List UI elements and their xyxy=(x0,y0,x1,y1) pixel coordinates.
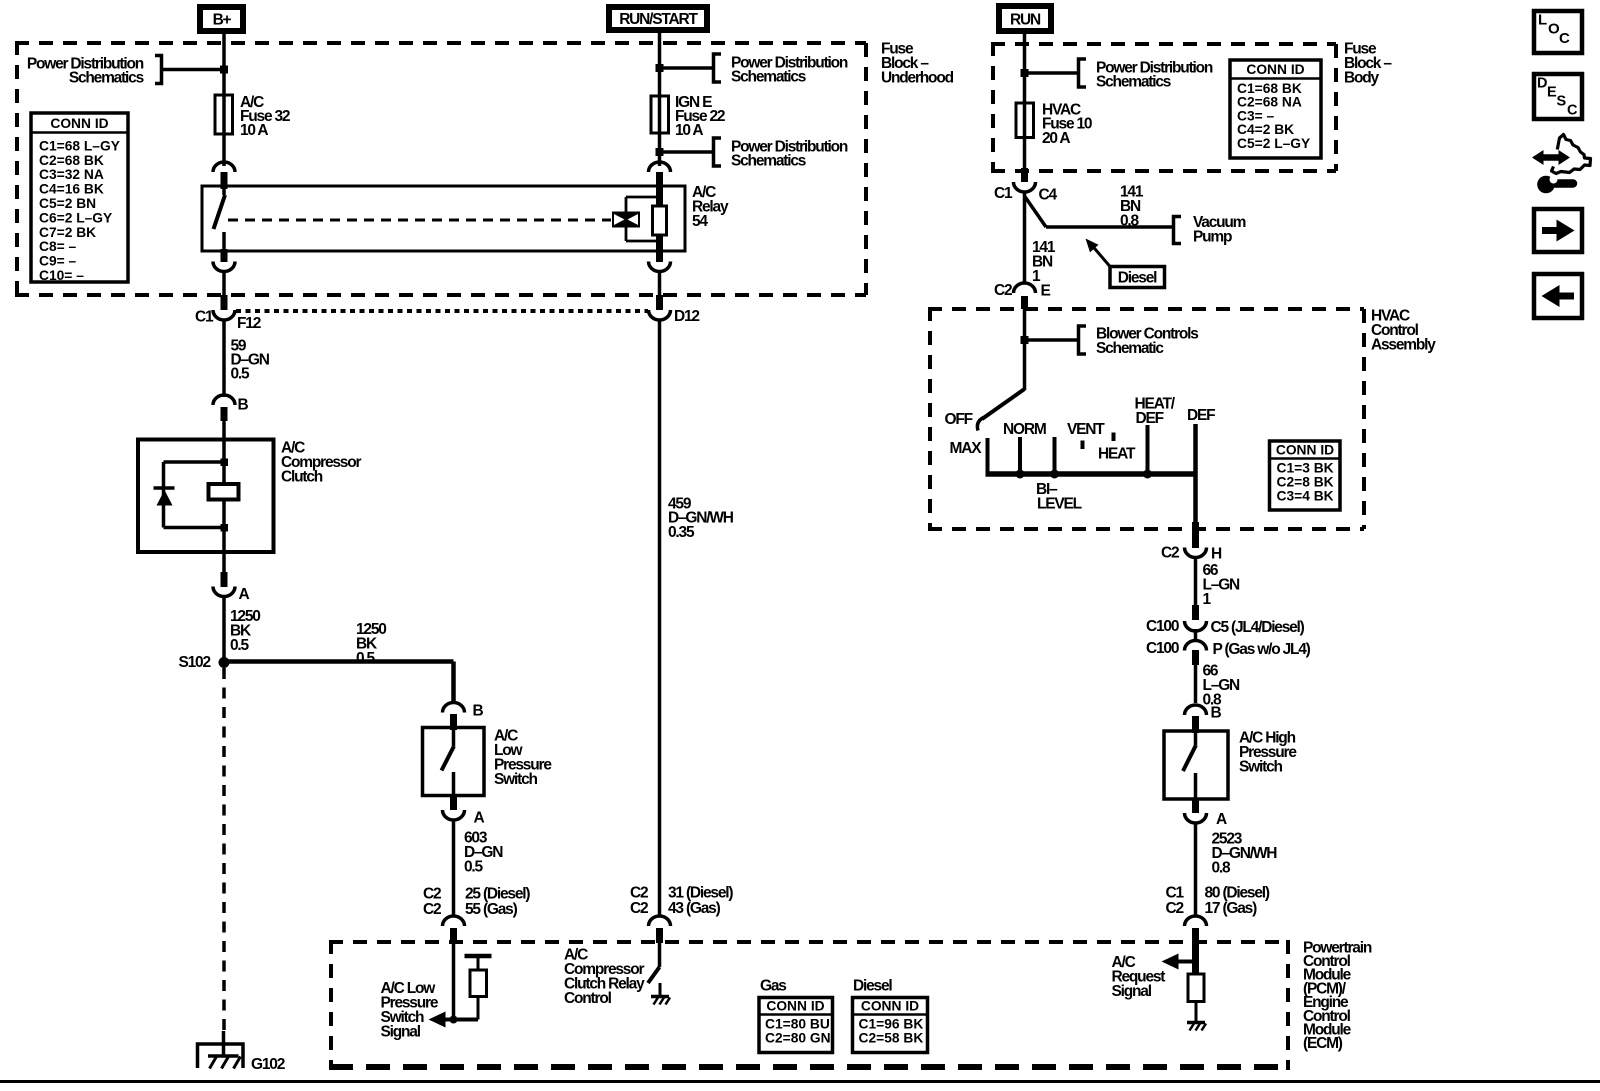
clutch coil xyxy=(209,484,239,500)
svg-text:MAX: MAX xyxy=(950,440,983,457)
wire high pressure switch to PCM xyxy=(1194,823,1198,917)
svg-text:C1: C1 xyxy=(994,185,1013,202)
svg-text:CONN ID: CONN ID xyxy=(861,999,919,1014)
node bus junctions xyxy=(1016,470,1153,479)
svg-text:LEVEL: LEVEL xyxy=(1037,495,1082,512)
svg-text:DEF: DEF xyxy=(1136,410,1164,427)
label A/C High Pressure Switch xyxy=(1239,730,1297,776)
connector A (high pressure switch pin A) xyxy=(1192,799,1199,813)
svg-text:C2=8 BK: C2=8 BK xyxy=(1277,475,1334,490)
A/C high pressure switch box xyxy=(1164,731,1228,799)
icon next arrow button xyxy=(1534,209,1582,252)
node junction mid power distribution 2 xyxy=(656,148,664,156)
svg-text:DEF: DEF xyxy=(1187,407,1215,424)
connector C1 C4 xyxy=(994,182,1057,203)
A/C compressor clutch box xyxy=(138,440,274,553)
wire RUN to HVAC fuse xyxy=(1023,34,1027,103)
svg-text:54: 54 xyxy=(692,213,708,230)
svg-text:L: L xyxy=(1538,12,1547,29)
pulldown resistor (A/C request) xyxy=(1188,962,1204,1023)
relay coil xyxy=(656,186,663,251)
svg-text:C100: C100 xyxy=(1146,640,1179,657)
svg-text:C5 (JL4/Diesel): C5 (JL4/Diesel) xyxy=(1211,619,1305,636)
svg-text:C5=2 L–GY: C5=2 L–GY xyxy=(1237,136,1310,151)
relay suppressor element xyxy=(612,212,640,228)
value label A/C Fuse 32 10 A xyxy=(240,94,290,139)
svg-text:F12: F12 xyxy=(237,315,261,332)
clutch coil wire xyxy=(222,462,226,528)
reference Power Distribution Schematics (left) xyxy=(27,55,224,86)
wire DEF contact to C2 H xyxy=(1193,424,1198,529)
svg-text:0.35: 0.35 xyxy=(668,524,695,541)
svg-text:S: S xyxy=(1557,94,1567,110)
svg-text:Body: Body xyxy=(1344,69,1380,86)
reference Power Distribution Schematics (mid upper) xyxy=(660,54,848,85)
icon wrench/arrows xyxy=(1532,135,1591,194)
svg-text:CONN ID: CONN ID xyxy=(50,116,108,131)
page bottom border xyxy=(0,1080,1600,1083)
svg-text:Schematics: Schematics xyxy=(731,152,806,169)
A/C compressor clutch relay control driver switch xyxy=(648,941,660,983)
wire label 2523 D-GN/WH 0.8 xyxy=(1212,830,1278,876)
svg-text:C3=32 NA: C3=32 NA xyxy=(39,167,104,182)
connector into PCM (low pressure signal) xyxy=(443,916,465,926)
reference Blower Controls Schematic xyxy=(1025,325,1199,357)
svg-text:C7=2 BK: C7=2 BK xyxy=(39,225,96,240)
connector C100 C5 (JL4/Diesel) xyxy=(1146,618,1305,636)
svg-text:C100: C100 xyxy=(1146,618,1179,635)
node junction blower controls xyxy=(1021,336,1029,344)
fuse A/C Fuse 32 xyxy=(215,95,233,134)
svg-text:CONN ID: CONN ID xyxy=(1276,443,1334,458)
svg-text:C1=96 BK: C1=96 BK xyxy=(859,1017,924,1032)
svg-text:VENT: VENT xyxy=(1067,421,1105,438)
svg-text:0.5: 0.5 xyxy=(356,650,376,667)
svg-text:Signal: Signal xyxy=(381,1023,421,1040)
icon DESC button xyxy=(1534,74,1582,119)
svg-text:25 (Diesel): 25 (Diesel) xyxy=(465,885,530,902)
relay A/C Relay 54 box xyxy=(202,186,685,251)
wire C100 to high pressure switch, label 66 L-GN 0.8 xyxy=(1192,650,1199,665)
node junction mid power distribution 1 xyxy=(656,64,664,72)
svg-text:C2: C2 xyxy=(994,282,1012,299)
label A/C Relay 54 xyxy=(692,184,729,230)
svg-text:C10= –: C10= – xyxy=(39,268,84,283)
svg-text:C: C xyxy=(1559,30,1570,47)
svg-text:0.8: 0.8 xyxy=(1212,859,1232,876)
label A/C Low Pressure Switch Signal xyxy=(381,980,439,1041)
wire F12 to compressor clutch, label 59 D-GN 0.5 xyxy=(222,320,226,397)
switch output bus xyxy=(986,471,1198,477)
wire clutch to connector A xyxy=(222,528,226,553)
svg-text:NORM: NORM xyxy=(1003,421,1046,438)
svg-text:RUN/START: RUN/START xyxy=(619,11,698,28)
wire S102 to G102 (dashed) xyxy=(222,668,226,1031)
icon back arrow button xyxy=(1534,274,1582,318)
svg-text:31 (Diesel): 31 (Diesel) xyxy=(668,884,733,901)
svg-text:B: B xyxy=(238,396,249,413)
wire IGN E fuse to relay xyxy=(658,133,662,166)
connector A (compressor clutch pin A) xyxy=(213,586,250,603)
CONN ID table (HVAC) xyxy=(1270,441,1341,510)
mode switch wiper xyxy=(977,389,1024,431)
svg-text:0.5: 0.5 xyxy=(230,637,250,654)
svg-text:C2=58 BK: C2=58 BK xyxy=(859,1031,924,1046)
svg-text:C1=80 BU: C1=80 BU xyxy=(765,1017,830,1032)
CONN ID table (Diesel) xyxy=(853,977,928,1052)
node junction left power distribution xyxy=(220,66,228,74)
svg-text:C2: C2 xyxy=(630,900,648,917)
diode (clutch suppressor) xyxy=(154,488,175,506)
wire HVAC fuse to C1 C4 xyxy=(1023,138,1027,171)
connector C100 P (Gas w/o JL4) xyxy=(1146,640,1311,658)
A/C request signal arrow xyxy=(1162,954,1200,970)
connector B (compressor clutch pin B) xyxy=(213,395,249,413)
relay coil branch xyxy=(626,197,660,241)
svg-text:0.8: 0.8 xyxy=(1120,212,1140,229)
svg-text:C4: C4 xyxy=(1039,186,1058,203)
connector arc below relay right xyxy=(656,249,663,262)
low pressure switch contact xyxy=(442,730,455,796)
reference Power Distribution Schematics (mid lower) xyxy=(660,138,848,169)
wire S102 to low pressure switch xyxy=(224,662,454,703)
svg-text:0.5: 0.5 xyxy=(464,858,484,875)
svg-text:H: H xyxy=(1211,545,1222,562)
svg-text:Pump: Pump xyxy=(1193,228,1232,245)
connector A (low pressure switch pin A) xyxy=(450,796,457,811)
RUN/START ignition terminal xyxy=(609,7,707,30)
switch contact ticks xyxy=(988,425,1148,474)
icon LOC button xyxy=(1534,11,1582,53)
relay linkage dashed xyxy=(228,219,611,222)
node clutch loop top xyxy=(221,459,229,467)
wire branch to vacuum pump xyxy=(1025,196,1174,227)
reference Power Distribution Schematics (right) xyxy=(1025,59,1213,90)
node clutch loop bottom xyxy=(221,524,229,532)
svg-text:C2: C2 xyxy=(1166,900,1184,917)
value label IGN E Fuse 22 10 A xyxy=(675,94,725,139)
svg-text:C6=2 L–GY: C6=2 L–GY xyxy=(39,210,112,225)
svg-text:A: A xyxy=(474,809,485,826)
connector D12 xyxy=(649,308,700,325)
svg-text:10 A: 10 A xyxy=(240,122,268,139)
svg-text:G102: G102 xyxy=(251,1056,285,1073)
wire connector A to S102 xyxy=(222,597,226,662)
svg-text:C4=16 BK: C4=16 BK xyxy=(39,182,104,197)
svg-text:Schematic: Schematic xyxy=(1096,340,1164,357)
connector B (high pressure switch pin B) xyxy=(1185,704,1222,721)
svg-text:CONN ID: CONN ID xyxy=(766,999,824,1014)
wire label 1250 BK 0.5 (left) xyxy=(230,608,260,654)
label HVAC Control Assembly xyxy=(1371,307,1436,353)
wire label 1250 BK 0.5 (right) xyxy=(356,621,386,667)
connector arc into relay left pole xyxy=(213,162,235,172)
connector C2 E xyxy=(994,282,1051,300)
RUN ignition terminal xyxy=(999,6,1051,31)
label A/C Request Signal xyxy=(1112,954,1166,1000)
wire fuse to relay (left pole) xyxy=(222,134,226,166)
wire into PCM low pressure signal xyxy=(452,941,456,1020)
wire B+ to A/C fuse xyxy=(222,34,226,95)
svg-text:C1: C1 xyxy=(1166,884,1185,901)
pin labels C2 31 (Diesel) / C2 43 (Gas) xyxy=(630,884,733,917)
svg-text:C5=2 BN: C5=2 BN xyxy=(39,196,96,211)
svg-text:Diesel: Diesel xyxy=(1118,270,1157,287)
node S102 splice xyxy=(179,654,230,671)
svg-text:CONN ID: CONN ID xyxy=(1246,62,1304,77)
ground (clutch relay driver) xyxy=(651,983,670,1005)
node junction right power distribution xyxy=(1021,69,1029,77)
wire dotted fuse block bottom link F12 to D12 xyxy=(236,309,648,313)
svg-text:P (Gas w/o JL4): P (Gas w/o JL4) xyxy=(1213,641,1311,658)
HVAC control assembly dashed box xyxy=(928,307,1364,531)
wire C1 C4 to C2 E, label 141 BN 1 xyxy=(1023,192,1027,283)
PCM dashed box xyxy=(329,940,1290,1070)
wire into mode switch xyxy=(1023,309,1027,390)
connector C2 H xyxy=(1161,544,1222,562)
svg-text:C2=80 GN: C2=80 GN xyxy=(765,1031,831,1046)
fuse IGN E Fuse 22 xyxy=(651,96,669,133)
svg-text:C1: C1 xyxy=(195,308,214,325)
relay switch contact xyxy=(214,186,226,251)
svg-text:Assembly: Assembly xyxy=(1371,336,1436,353)
label Fuse Block - Body xyxy=(1344,40,1392,86)
reference Vacuum Pump xyxy=(1174,214,1246,246)
svg-text:C2: C2 xyxy=(423,885,441,902)
CONN ID table (Gas) xyxy=(759,977,833,1052)
connector arc below relay left xyxy=(221,249,228,262)
svg-text:S102: S102 xyxy=(179,654,211,671)
ground G102 xyxy=(198,1044,285,1073)
fuse block underhood dashed box xyxy=(15,41,866,297)
wire label 603 D-GN 0.5 xyxy=(464,829,503,875)
svg-text:RUN: RUN xyxy=(1010,12,1041,29)
svg-text:E: E xyxy=(1041,282,1051,299)
wire RUN/START to IGN E fuse xyxy=(658,33,662,96)
svg-text:C2: C2 xyxy=(423,901,441,918)
svg-text:C1=68 L–GY: C1=68 L–GY xyxy=(39,138,120,153)
svg-text:55 (Gas): 55 (Gas) xyxy=(465,901,518,918)
svg-text:Underhood: Underhood xyxy=(881,69,954,86)
svg-text:C1=3 BK: C1=3 BK xyxy=(1277,461,1334,476)
svg-text:C2=68 BK: C2=68 BK xyxy=(39,153,104,168)
svg-text:E: E xyxy=(1547,84,1557,100)
wire label 141 BN 0.8 xyxy=(1120,183,1144,229)
svg-text:C2: C2 xyxy=(630,884,648,901)
svg-text:B: B xyxy=(1211,704,1222,721)
svg-text:D: D xyxy=(1537,75,1547,91)
svg-text:0.5: 0.5 xyxy=(231,366,251,383)
fuse block body dashed box xyxy=(991,42,1336,173)
ground (A/C request) xyxy=(1187,1023,1206,1031)
svg-text:C9= –: C9= – xyxy=(39,254,77,269)
svg-text:80 (Diesel): 80 (Diesel) xyxy=(1205,884,1270,901)
high pressure switch contact xyxy=(1183,733,1196,799)
clutch diode loop xyxy=(164,462,225,528)
svg-text:OFF: OFF xyxy=(945,411,973,428)
connector arc into relay right pole xyxy=(649,162,671,172)
svg-text:43 (Gas): 43 (Gas) xyxy=(668,900,721,917)
svg-text:C8= –: C8= – xyxy=(39,239,77,254)
svg-text:Schematics: Schematics xyxy=(731,68,806,85)
svg-text:Schematics: Schematics xyxy=(1096,73,1171,90)
B+ battery terminal xyxy=(200,7,243,31)
svg-text:B: B xyxy=(473,702,484,719)
svg-text:Diesel: Diesel xyxy=(853,977,892,994)
wire D12 to PCM, label 459 D-GN/WH 0.35 xyxy=(658,320,662,917)
svg-text:Clutch: Clutch xyxy=(281,468,323,485)
label A/C Low Pressure Switch xyxy=(494,727,552,788)
value label HVAC Fuse 10 20 A xyxy=(1042,101,1092,147)
wire into clutch box xyxy=(222,421,226,462)
label Powertrain Control Module (PCM)/Engine Control Module (ECM) xyxy=(1303,939,1372,1052)
connector into PCM (clutch relay control) xyxy=(649,916,671,926)
svg-text:B+: B+ xyxy=(213,12,232,29)
svg-text:Switch: Switch xyxy=(494,771,537,788)
A/C low pressure switch box xyxy=(423,728,485,796)
svg-text:(ECM): (ECM) xyxy=(1303,1035,1343,1052)
label A/C Compressor Clutch xyxy=(281,439,361,485)
A/C low pressure switch signal arrow xyxy=(429,1012,479,1028)
CONN ID table (underhood) xyxy=(31,113,128,283)
svg-text:Control: Control xyxy=(564,990,612,1007)
connector into PCM (A/C request) xyxy=(1185,916,1207,926)
svg-text:C: C xyxy=(1567,103,1578,119)
svg-text:10 A: 10 A xyxy=(675,122,703,139)
svg-text:Gas: Gas xyxy=(760,977,786,994)
svg-text:A: A xyxy=(239,586,250,603)
label Fuse Block - Underhood xyxy=(881,40,954,86)
wire relay to D12 xyxy=(658,271,662,297)
note Diesel with arrow xyxy=(1086,239,1165,288)
switch position labels xyxy=(945,395,1216,512)
svg-text:C3=4 BK: C3=4 BK xyxy=(1277,489,1334,504)
connector B (low pressure switch pin B) xyxy=(443,702,484,719)
svg-text:D12: D12 xyxy=(674,308,699,325)
pin labels C2 25 (Diesel) / C2 55 (Gas) xyxy=(423,885,530,918)
svg-text:C2: C2 xyxy=(1161,544,1179,561)
svg-text:20 A: 20 A xyxy=(1042,130,1070,147)
svg-text:17 (Gas): 17 (Gas) xyxy=(1205,900,1258,917)
svg-text:Switch: Switch xyxy=(1239,759,1282,776)
CONN ID table (body) xyxy=(1230,60,1321,158)
svg-text:HEAT: HEAT xyxy=(1098,445,1136,462)
svg-text:Signal: Signal xyxy=(1112,983,1152,1000)
connector C1 F12 xyxy=(195,308,261,332)
svg-text:Schematics: Schematics xyxy=(69,69,144,86)
label A/C Compressor Clutch Relay Control xyxy=(564,946,645,1007)
wire relay to C1 F12 xyxy=(222,271,226,297)
pin labels C1 80 (Diesel) / C2 17 (Gas) xyxy=(1166,884,1270,917)
fuse HVAC Fuse 10 xyxy=(1016,103,1034,138)
wire C2 H to C100, label 66 L-GN 1 xyxy=(1194,556,1198,606)
wire low pressure switch to PCM xyxy=(452,820,456,917)
svg-text:A: A xyxy=(1216,811,1227,828)
pullup resistor (low pressure signal) xyxy=(465,956,492,1020)
